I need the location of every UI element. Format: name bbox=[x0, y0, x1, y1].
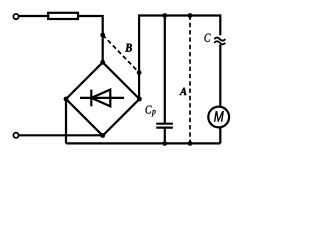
node bus / link A top bbox=[188, 13, 193, 18]
label C of C~ bbox=[205, 34, 211, 42]
diode D inside bridge bbox=[80, 90, 124, 107]
motor M circle bbox=[208, 107, 229, 128]
wire bbox=[19, 15, 48, 17]
wire bbox=[79, 16, 103, 62]
label Cp bbox=[146, 106, 152, 114]
node rail / link A bottom bbox=[188, 141, 193, 146]
node bridge bottom vertex bbox=[100, 133, 105, 138]
node bridge left vertex bbox=[64, 97, 69, 102]
node bus / Cp bbox=[162, 13, 167, 18]
capacitor Cp branch wire top bbox=[164, 16, 166, 123]
link A dashed wire bbox=[189, 16, 191, 144]
wire: motor bottom to rail bbox=[219, 128, 221, 144]
capacitor Cp plates bbox=[156, 124, 173, 128]
node rail / Cp bbox=[162, 141, 167, 146]
label B bbox=[125, 44, 132, 52]
wire: bottom rail from bridge minus output bbox=[66, 99, 220, 144]
junction node (resistor output / B link) bbox=[100, 33, 105, 38]
wire: top bus bbox=[139, 16, 220, 99]
link B dashed wire bbox=[103, 35, 139, 73]
wire bbox=[19, 134, 103, 136]
bridge rectifier diamond bbox=[66, 62, 139, 135]
wire: right branch below C break to motor bbox=[219, 45, 221, 107]
capacitor Cp branch wire bottom bbox=[164, 129, 166, 144]
node bridge right vertex bbox=[137, 97, 142, 102]
terminal bottom-left bbox=[13, 133, 18, 138]
node bridge top vertex bbox=[100, 60, 105, 65]
node B link end bbox=[137, 70, 142, 75]
resistor R bbox=[48, 13, 78, 19]
terminal top-left bbox=[13, 14, 18, 19]
AC-break squiggle of C~ on motor branch bbox=[214, 38, 225, 45]
label M bbox=[214, 111, 224, 121]
label A bbox=[180, 88, 187, 95]
